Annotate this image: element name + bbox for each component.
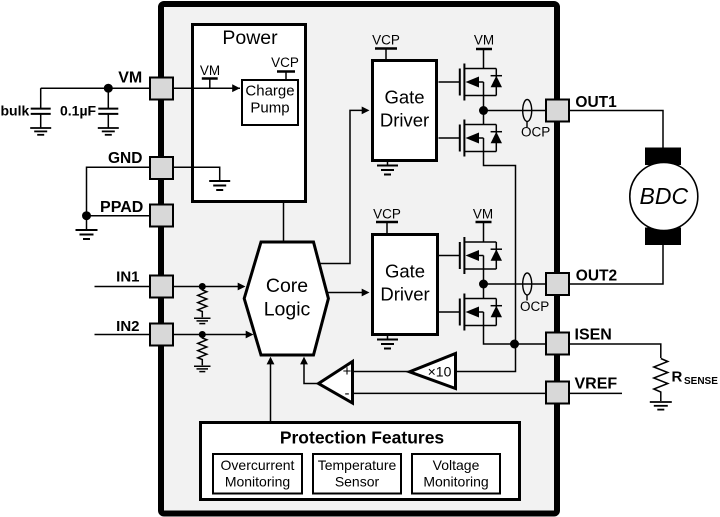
ground below IN1 resistor [194, 318, 211, 323]
node OUT2 junction [479, 280, 488, 289]
wire IN2 [95, 334, 151, 336]
svg-text:Protection Features: Protection Features [280, 428, 445, 448]
svg-text:bulk: bulk [1, 102, 30, 118]
svg-text:VCP: VCP [372, 33, 400, 48]
arrowhead into Gate Driver 1 [362, 107, 370, 115]
ground below 0.1uF capacitor [98, 128, 119, 135]
svg-text:Monitoring: Monitoring [225, 473, 290, 489]
wire Protection to Core Logic [270, 364, 272, 421]
svg-text:Monitoring: Monitoring [423, 473, 488, 489]
current sensor OCP1 ellipse [523, 100, 532, 122]
block Temperature Sensor [313, 454, 401, 494]
motor terminal top [645, 148, 681, 166]
supply symbol VCP above Gate Driver 1 [372, 33, 400, 60]
resistor pulldown IN2 [198, 335, 207, 366]
transistor Q4 low-side [439, 294, 503, 331]
wire IN1 [95, 286, 151, 288]
ground below PPAD junction [76, 216, 98, 239]
svg-text:VM: VM [118, 70, 142, 87]
node sense junction dot [510, 340, 519, 349]
svg-text:VM: VM [200, 63, 220, 78]
wire Q3 source to OUT2 node [483, 269, 485, 299]
block Core Logic hexagon [244, 242, 328, 355]
block Charge Pump [242, 80, 298, 125]
comparator U2 [319, 362, 353, 404]
pin IN2 [150, 324, 173, 346]
pin VREF [546, 382, 569, 404]
svg-text:Driver: Driver [380, 284, 429, 305]
wire Core Logic to Gate Driver 2 [327, 292, 363, 294]
wire GND to PPAD [87, 167, 151, 216]
wire sense to x10 input [456, 344, 516, 372]
svg-text:Driver: Driver [380, 110, 429, 131]
ground below bulk capacitor [30, 128, 51, 135]
block Power [193, 25, 306, 202]
svg-text:Overcurrent: Overcurrent [221, 457, 295, 473]
svg-text:Voltage: Voltage [433, 457, 480, 473]
svg-text:Logic: Logic [264, 299, 311, 321]
svg-text:Temperature: Temperature [318, 457, 397, 473]
wire Power to Core Logic [283, 203, 285, 242]
node OUT1 junction [479, 106, 488, 115]
wire Q2 source to sense rail [484, 152, 516, 345]
wire Q4 source to sense junction [484, 326, 516, 345]
capacitor C2 0.1uF [98, 88, 118, 127]
ground below Rsense [650, 402, 672, 410]
svg-text:Sensor: Sensor [335, 473, 380, 489]
supply symbol VCP above Gate Driver 2 [373, 207, 401, 234]
ground below Gate Driver 2 [377, 336, 398, 349]
pin GND [150, 157, 173, 179]
supply symbol VM above FET Q3 [473, 207, 493, 243]
svg-text:R: R [672, 369, 683, 386]
wire Q1 source to OUT1 node [483, 96, 485, 125]
svg-text:Pump: Pump [250, 100, 289, 117]
wire OUT2 to motor [569, 245, 663, 284]
wire x10 output to comparator plus [352, 371, 409, 373]
arrowhead into Gate Driver 2 [362, 289, 370, 297]
junction dot IN1 [199, 283, 206, 290]
svg-text:Core: Core [266, 275, 308, 297]
svg-text:Gate: Gate [385, 261, 425, 282]
svg-text:0.1µF: 0.1µF [60, 102, 97, 118]
motor terminal bottom [645, 228, 681, 246]
svg-text:IN2: IN2 [116, 318, 139, 335]
transistor Q3 high-side [439, 237, 503, 274]
svg-text:PPAD: PPAD [100, 199, 143, 216]
block Gate Driver 2 [373, 235, 438, 335]
resistor Rsense [654, 359, 668, 402]
block Gate Driver 1 [373, 61, 437, 161]
junction dot on VM wire [104, 84, 113, 93]
svg-text:IN1: IN1 [116, 269, 139, 286]
IC body U1 [161, 4, 557, 514]
pin VM [150, 78, 173, 100]
capacitor C1 bulk [31, 88, 51, 127]
svg-text:SENSE: SENSE [684, 376, 718, 387]
svg-text:ISEN: ISEN [575, 327, 612, 344]
wire VM net [41, 87, 240, 89]
block Protection Features [201, 423, 520, 500]
ground below Gate Driver 1 [377, 162, 398, 175]
block Overcurrent Monitoring [213, 454, 302, 494]
pin OUT1 [546, 100, 569, 122]
arrowhead into charge pump [232, 84, 240, 92]
block Voltage Monitoring [412, 454, 500, 494]
svg-text:OUT1: OUT1 [575, 94, 617, 111]
wire OUT1 to motor [569, 111, 663, 149]
svg-text:-: - [345, 385, 350, 402]
ground below IN2 resistor [194, 366, 211, 371]
wire VREF to comparator minus [352, 392, 546, 394]
svg-text:BDC: BDC [640, 183, 689, 209]
resistor pulldown IN1 [198, 287, 207, 318]
supply symbol VM inside Power [200, 63, 220, 88]
supply symbol VCP above charge pump [271, 55, 299, 80]
pin PPAD [150, 205, 173, 227]
svg-text:+: + [343, 363, 352, 380]
pin ISEN [546, 333, 569, 355]
junction dot PPAD [82, 211, 91, 220]
amplifier x10 [410, 354, 456, 389]
wire comparator output to Core Logic [304, 364, 319, 384]
svg-text:VREF: VREF [575, 376, 618, 393]
ground inside Power block [173, 167, 230, 190]
pin IN1 [150, 276, 173, 298]
svg-text:OCP: OCP [521, 125, 550, 140]
svg-text:OUT2: OUT2 [576, 268, 617, 285]
svg-text:VCP: VCP [373, 207, 401, 222]
svg-text:Gate: Gate [384, 87, 424, 108]
wire OUT2 node to pin [484, 283, 547, 285]
junction dot IN2 [199, 331, 206, 338]
wire OUT1 node to pin [484, 110, 547, 112]
wire Core Logic to Gate Driver 1 [319, 110, 363, 263]
svg-text:×10: ×10 [428, 363, 452, 379]
wire ISEN to Rsense [569, 344, 661, 358]
supply symbol VM above FET Q1 [474, 33, 494, 69]
svg-text:VM: VM [474, 33, 494, 48]
arrowhead protection to core logic [267, 357, 275, 365]
pin OUT2 [546, 273, 569, 295]
motor BDC [630, 163, 698, 231]
transistor Q1 high-side [439, 64, 503, 101]
svg-text:VM: VM [473, 207, 493, 222]
transistor Q2 low-side [439, 120, 503, 157]
svg-text:Charge: Charge [245, 83, 294, 100]
current sensor OCP2 ellipse [523, 273, 532, 295]
svg-text:Power: Power [222, 27, 278, 49]
arrowhead IN2 into core logic [246, 331, 254, 339]
arrowhead IN1 into core logic [238, 283, 246, 291]
wire VREF external stub [569, 392, 622, 394]
arrowhead comparator to core logic [300, 357, 308, 365]
wire sense junction to ISEN pin [515, 343, 547, 345]
svg-text:VCP: VCP [271, 55, 299, 70]
svg-text:OCP: OCP [520, 299, 549, 314]
svg-text:GND: GND [108, 150, 142, 167]
